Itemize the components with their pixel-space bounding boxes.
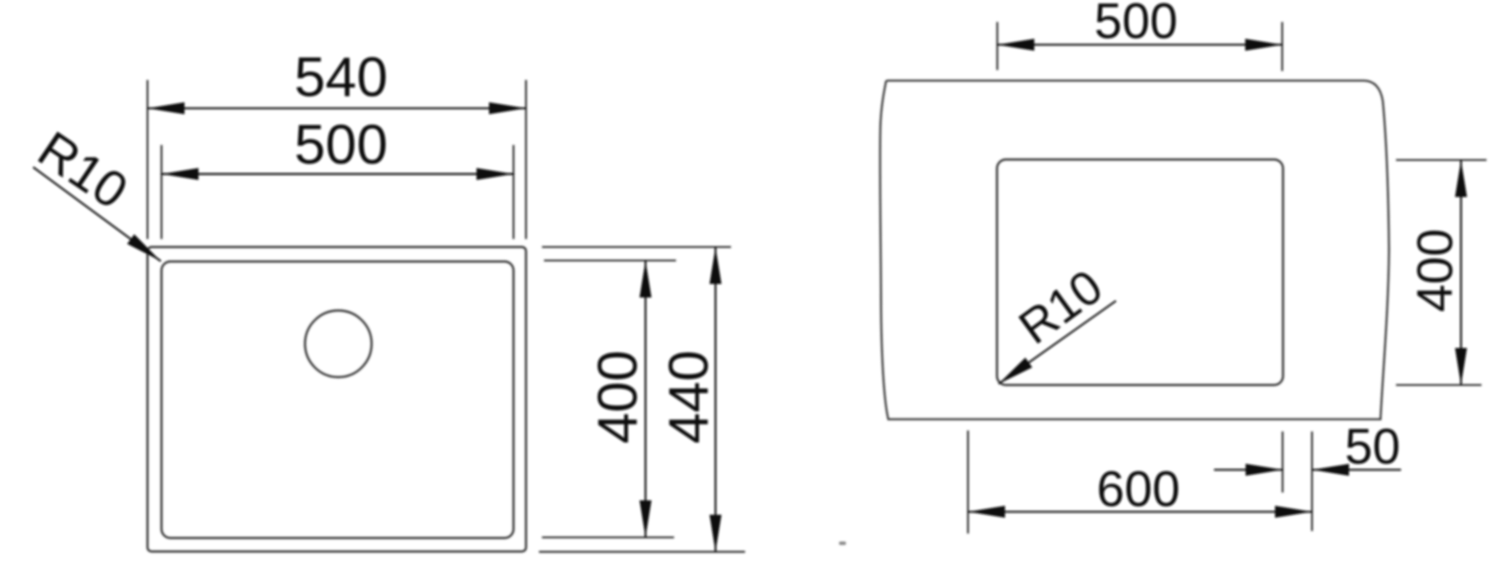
- svg-text:540: 540: [294, 45, 387, 108]
- svg-text:600: 600: [1097, 461, 1180, 517]
- svg-text:400: 400: [586, 350, 649, 443]
- svg-text:500: 500: [1094, 0, 1177, 49]
- svg-text:500: 500: [294, 113, 387, 176]
- svg-text:50: 50: [1345, 419, 1401, 475]
- svg-text:400: 400: [1407, 229, 1463, 312]
- svg-text:440: 440: [657, 350, 720, 443]
